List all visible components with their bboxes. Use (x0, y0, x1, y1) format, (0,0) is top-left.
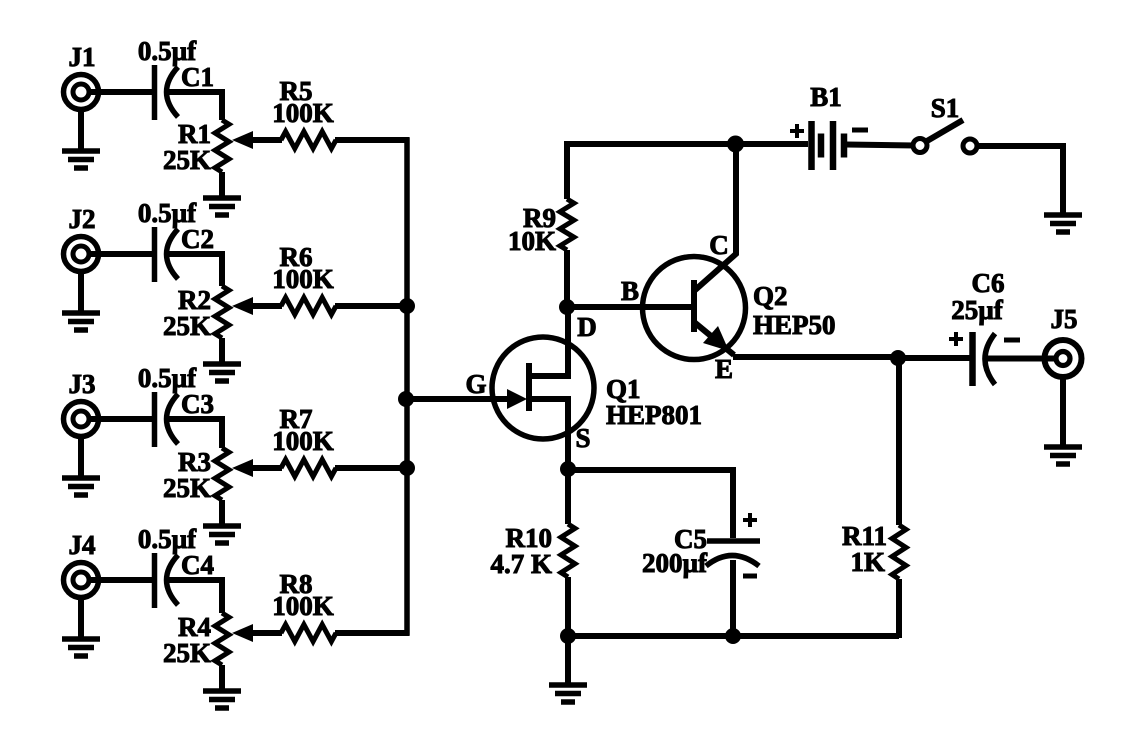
wire drain node to base of Q2 (567, 304, 694, 310)
switch S1 (913, 120, 977, 153)
battery B1 (812, 121, 845, 170)
svg-text:B1: B1 (810, 82, 842, 112)
wiper arrow R4 (232, 624, 253, 642)
svg-text:25K: 25K (163, 311, 211, 341)
resistor R5 (281, 132, 336, 149)
wire collector to top rail (733, 142, 739, 255)
wire source node to C5 (568, 470, 733, 538)
ground (J5) (1044, 447, 1082, 464)
jack J3 (64, 402, 99, 437)
svg-text:J4: J4 (69, 530, 96, 560)
plus sign (B1) (790, 124, 804, 138)
minus sign (C6) (1004, 338, 1020, 343)
wire C4 to R4 (167, 580, 222, 613)
emitter lead Q2 (694, 322, 734, 355)
ground (R4) (203, 691, 241, 708)
junction source/R10/C5 (560, 461, 576, 477)
svg-text:100K: 100K (272, 98, 334, 128)
ground (bottom rail) (549, 685, 587, 702)
wire R10 upper lead (565, 469, 571, 524)
capacitor C3 (155, 392, 179, 447)
collector lead Q2 (694, 253, 737, 291)
ground (J2) (62, 313, 100, 330)
wire output node to C6 (898, 355, 970, 361)
wire R7 to bus (335, 465, 410, 471)
svg-text:E: E (715, 354, 733, 384)
op circle Q1 (492, 337, 594, 439)
svg-text:C: C (709, 230, 729, 260)
ground (J4) (62, 639, 100, 656)
capacitor C2 (155, 227, 179, 282)
wire R5 to bus (335, 137, 410, 143)
resistor R7 (281, 460, 336, 477)
svg-text:25µf: 25µf (951, 295, 1004, 325)
wire J2 to C2 (88, 251, 155, 257)
potentiometer R1 (215, 120, 229, 172)
ground (J1) (62, 151, 100, 168)
junction emitter/R11/C6 (890, 350, 906, 366)
wire C1 to R1 (167, 92, 222, 120)
svg-text:1K: 1K (850, 547, 885, 577)
junction bus/R7 (399, 460, 415, 476)
jack J1 (64, 75, 99, 110)
plus sign (C5) (743, 513, 757, 527)
capacitor C5 (706, 541, 760, 566)
potentiometer R2 (215, 286, 229, 338)
drain lead Q1 (529, 307, 568, 376)
wire C2 to R2 (167, 254, 222, 286)
svg-text:HEP801: HEP801 (606, 400, 702, 430)
svg-text:J3: J3 (69, 369, 96, 399)
wire C3 to R3 (167, 419, 222, 448)
svg-text:J2: J2 (69, 204, 96, 234)
svg-text:D: D (577, 312, 597, 342)
capacitor C1 (155, 65, 179, 120)
svg-text:C6: C6 (972, 268, 1005, 298)
svg-text:25K: 25K (163, 145, 211, 175)
gate arrow Q1 (507, 389, 527, 409)
wire emitter to output node (733, 354, 899, 360)
svg-text:C2: C2 (181, 224, 214, 254)
wire R9 to drain node (564, 250, 570, 307)
wire J3 to C3 (88, 416, 155, 422)
base bar Q2 (691, 280, 697, 332)
svg-text:25K: 25K (163, 473, 211, 503)
minus sign (B1) (852, 128, 868, 133)
svg-text:10K: 10K (508, 226, 556, 256)
wire wiper R3 to R7 (251, 465, 282, 471)
wire C5 to bottom rail (730, 560, 736, 636)
svg-text:S1: S1 (931, 93, 960, 123)
wire J1 ground stem (78, 109, 84, 151)
svg-text:G: G (465, 369, 486, 399)
svg-text:25K: 25K (163, 638, 211, 668)
transistor circle Q2 (643, 257, 746, 360)
wire R6 to bus (335, 303, 410, 309)
wire R4 ground stem (219, 665, 225, 691)
resistor R6 (281, 298, 336, 315)
jack J2 (64, 237, 99, 272)
resistor R9 (560, 199, 574, 250)
junction bus/R6 (399, 298, 415, 314)
svg-text:S: S (575, 423, 590, 453)
wire J4 ground stem (78, 597, 84, 639)
ground (R3) (203, 526, 241, 543)
junction bottom rail / C5 (725, 628, 741, 644)
wire bottom rail (568, 633, 899, 639)
svg-text:B: B (621, 276, 639, 306)
wire R11 to bottom rail (896, 579, 899, 635)
jack J5 (1045, 340, 1082, 377)
svg-text:J5: J5 (1051, 304, 1078, 334)
wire R10 to bottom rail (565, 577, 571, 636)
svg-text:200µf: 200µf (642, 548, 708, 578)
wire R2 ground stem (219, 338, 225, 364)
wire J3 ground stem (78, 436, 84, 478)
wire top rail (564, 141, 808, 147)
wire R8 to bus (335, 630, 410, 636)
svg-text:C3: C3 (181, 389, 214, 419)
wire battery to switch (846, 145, 915, 146)
potentiometer R4 (215, 613, 229, 665)
svg-text:4.7 K: 4.7 K (490, 549, 552, 579)
svg-text:C1: C1 (181, 62, 214, 92)
source lead Q1 (529, 399, 568, 469)
junction top rail / collector (727, 136, 744, 153)
resistor R8 (281, 625, 336, 642)
svg-text:J1: J1 (69, 42, 96, 72)
wire output node to R11 (896, 358, 902, 525)
ground (R1) (203, 198, 241, 215)
svg-text:100K: 100K (272, 264, 334, 294)
wire C6 to J5 (986, 356, 1057, 362)
wiper arrow R3 (232, 459, 253, 477)
jack J4 (64, 563, 99, 598)
svg-text:100K: 100K (272, 426, 334, 456)
junction bottom rail / R10 (560, 628, 576, 644)
wiper arrow R2 (232, 297, 253, 315)
wire R1 ground stem (219, 172, 225, 198)
wire bottom rail ground stem (565, 636, 571, 685)
gate bar Q1 (526, 363, 532, 411)
resistor R11 (892, 525, 906, 579)
wire top rail to R9 (564, 142, 570, 200)
junction bus/gate (398, 391, 414, 407)
capacitor C6 (973, 332, 996, 386)
emitter arrow Q2 (703, 326, 729, 351)
resistor R10 (561, 524, 575, 577)
svg-text:100K: 100K (272, 591, 334, 621)
wire J1 to C1 (88, 89, 155, 95)
potentiometer R3 (215, 448, 229, 500)
minus sign (C5) (743, 574, 757, 579)
wire wiper R4 to R8 (251, 630, 282, 636)
ground (S1 return) (1044, 215, 1082, 232)
wire J5 ground stem (1060, 376, 1066, 447)
wire J4 to C4 (88, 577, 155, 583)
svg-text:C4: C4 (181, 550, 214, 580)
wire J2 ground stem (78, 271, 84, 313)
wire summing bus (404, 138, 410, 636)
ground (J3) (62, 478, 100, 495)
svg-text:Q2: Q2 (753, 281, 788, 311)
wiper arrow R1 (232, 131, 253, 149)
ground (R2) (203, 364, 241, 381)
wire R3 ground stem (219, 500, 225, 526)
wire switch to ground (977, 146, 1063, 215)
wire wiper R2 to R6 (251, 303, 282, 309)
wire bus to gate of Q1 (407, 396, 510, 402)
svg-text:HEP50: HEP50 (753, 310, 836, 340)
junction drain/base node (559, 299, 575, 315)
capacitor C4 (155, 553, 179, 608)
plus sign (C6) (949, 332, 963, 346)
wire wiper R1 to R5 (251, 137, 282, 143)
